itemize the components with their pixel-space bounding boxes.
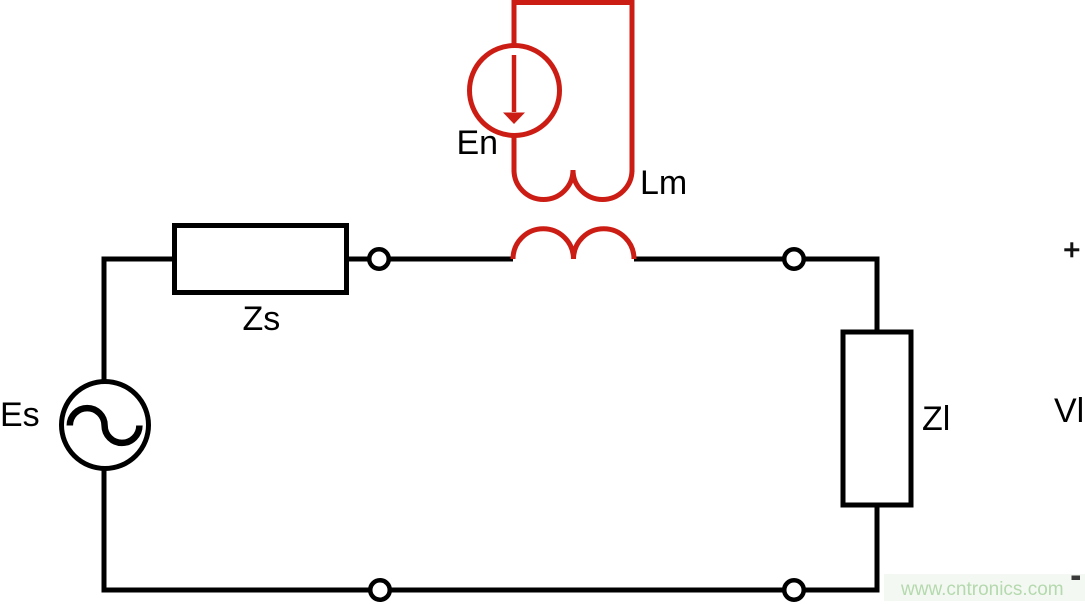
node terminal top-right	[784, 249, 804, 269]
svg-text:Zs: Zs	[243, 300, 281, 338]
svg-text:www.cntronics.com: www.cntronics.com	[900, 579, 1064, 600]
node terminal bottom-left	[370, 580, 390, 600]
node terminal top-left	[369, 249, 389, 269]
current source En	[470, 46, 560, 136]
resistor Zl	[843, 332, 911, 505]
label -	[1072, 576, 1081, 581]
sine wave of Es	[70, 408, 140, 443]
inductor Lm top winding	[514, 170, 632, 200]
svg-text:Es: Es	[0, 396, 40, 434]
label +	[1064, 248, 1079, 251]
wire main loop	[104, 259, 877, 590]
inductor Lm bottom winding	[513, 229, 634, 259]
resistor Zs	[175, 226, 347, 293]
svg-text:Vl: Vl	[1054, 392, 1084, 430]
svg-text:Lm: Lm	[640, 164, 687, 202]
svg-text:Zl: Zl	[922, 400, 950, 438]
watermark strip	[884, 574, 1085, 601]
source Es	[62, 382, 149, 469]
node terminal bottom-right	[784, 580, 804, 600]
wire red noise loop	[514, 3, 632, 173]
svg-text:En: En	[457, 124, 499, 162]
arrow of En	[512, 55, 517, 112]
